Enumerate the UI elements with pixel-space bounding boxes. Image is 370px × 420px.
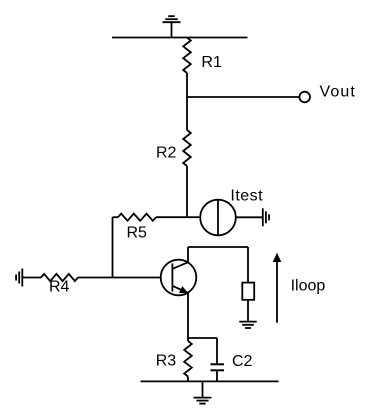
ground right of Itest (sideways earth): [263, 208, 269, 226]
ground top (inverted earth symbol): [163, 16, 181, 37]
wire base wire: [78, 277, 172, 279]
ground bottom (earth): [194, 381, 212, 403]
svg-text:R1: R1: [201, 54, 222, 71]
resistor R5: [113, 214, 188, 242]
wire box to ground: [247, 300, 249, 322]
current source Itest: [200, 188, 263, 236]
svg-text:C2: C2: [232, 353, 253, 370]
transistor Q1 (NPN): [161, 247, 197, 338]
resistor box (loop load): [242, 283, 254, 300]
svg-text:R4: R4: [49, 278, 70, 295]
wire bottom rail: [141, 380, 279, 382]
node Vout terminal: [299, 84, 356, 103]
ground left of R4 (sideways earth): [16, 269, 22, 287]
svg-text:R2: R2: [156, 145, 177, 162]
svg-text:Itest: Itest: [230, 188, 263, 205]
resistor R2: [156, 97, 191, 217]
resistor R3: [156, 338, 192, 381]
wire top supply rail: [112, 37, 248, 39]
svg-text:R5: R5: [127, 225, 148, 242]
wire collector loop: [188, 247, 248, 283]
svg-text:R3: R3: [156, 352, 177, 369]
wire current source to ground: [236, 216, 263, 218]
arrow Iloop: [273, 253, 326, 323]
svg-text:Vout: Vout: [320, 84, 356, 101]
resistor R1: [183, 38, 222, 98]
wire R5 down to base node: [112, 217, 114, 277]
capacitor C2: [188, 338, 253, 381]
ground below box (earth): [239, 322, 256, 328]
resistor R4: [22, 274, 78, 296]
wire node to current source: [187, 216, 200, 218]
svg-text:Iloop: Iloop: [291, 278, 326, 295]
wire Vout branch: [187, 96, 299, 98]
